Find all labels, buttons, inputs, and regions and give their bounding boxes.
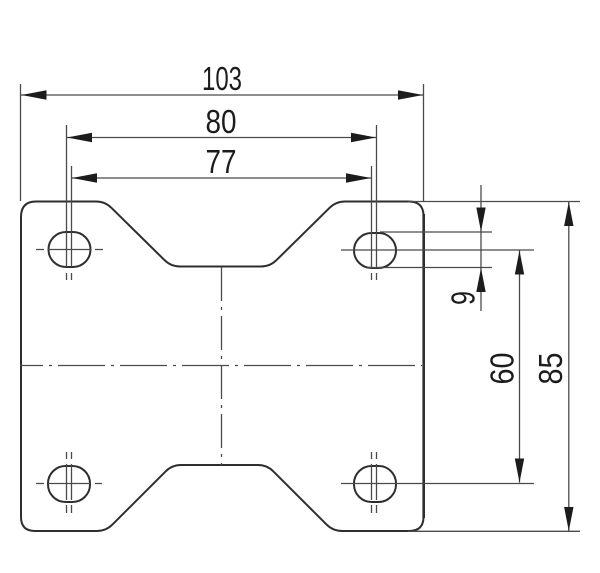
- svg-text:85: 85: [532, 353, 569, 385]
- arrow 85 up: [564, 202, 573, 226]
- arrow 103 left: [22, 90, 47, 100]
- arrow 103 right: [398, 90, 423, 100]
- extension line right (77): [371, 166, 373, 268]
- svg-text:60: 60: [484, 353, 521, 385]
- hole top-right (slot): [354, 233, 396, 268]
- extension line plate top edge (85): [408, 201, 580, 203]
- arrow 85 down: [564, 507, 573, 531]
- arrow 80 right: [351, 133, 376, 143]
- centerline dash below top-right hole: [371, 273, 373, 280]
- extension line left (80): [66, 125, 68, 267]
- arrow 77 right: [346, 173, 371, 183]
- dimension line 85: [568, 202, 570, 531]
- arrow 9 up: [476, 268, 485, 292]
- arrow 77 left: [72, 173, 97, 183]
- extension line plate bottom edge (85): [408, 530, 580, 532]
- centerline horizontal top-left hole: [36, 249, 103, 251]
- hole bottom-right (slot): [354, 466, 396, 502]
- dimension line 9 upper: [480, 185, 482, 311]
- centerline verticals bottom-right hole: [372, 452, 377, 513]
- plate outline: [21, 202, 424, 532]
- arrow 80 left: [67, 133, 92, 143]
- extension line right (103): [423, 84, 425, 201]
- extension line right (80): [376, 125, 378, 268]
- hole top-left (slot): [49, 232, 91, 267]
- centerline bottom-right hole extended (60 lower ref): [341, 483, 534, 485]
- svg-text:9: 9: [445, 291, 482, 305]
- extension line left (103): [20, 84, 22, 201]
- extension line left (77): [71, 166, 73, 267]
- dimension line 103: [21, 94, 423, 96]
- main horizontal centerline: [20, 365, 422, 367]
- dimension line 80: [67, 137, 376, 139]
- dimension line 60: [519, 251, 521, 483]
- extension line hole bottom tangent (9): [367, 267, 492, 269]
- arrow 9 down: [476, 208, 485, 232]
- svg-text:103: 103: [202, 60, 242, 97]
- centerline top-right hole extended (60 upper ref): [341, 249, 534, 251]
- dimension line 77: [72, 177, 371, 179]
- arrow 60 down: [515, 459, 524, 483]
- svg-text:80: 80: [206, 103, 237, 140]
- centerline dash below top-left hole: [66, 273, 68, 280]
- main vertical centerline: [221, 267, 223, 465]
- centerline horizontal bottom-left hole: [36, 483, 102, 485]
- plate right edge (thicker): [422, 214, 425, 518]
- hole bottom-left (slot): [48, 466, 90, 502]
- extension line hole top tangent (9): [380, 231, 492, 233]
- arrow 60 up: [515, 251, 524, 275]
- svg-text:77: 77: [206, 143, 237, 180]
- centerline verticals bottom-left hole: [67, 452, 72, 513]
